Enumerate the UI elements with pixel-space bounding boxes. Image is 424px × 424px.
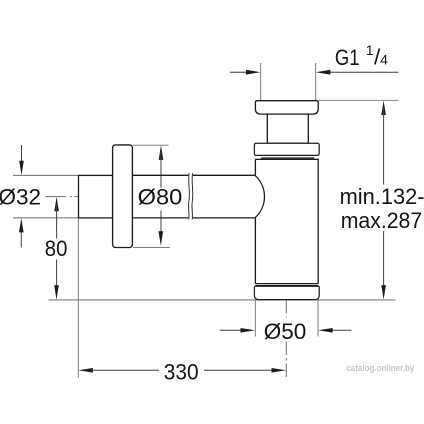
body chamfer line: [262, 158, 314, 160]
dim 80 upper arrow (up to centerline): [54, 197, 59, 212]
body bottom thick line: [255, 285, 318, 287]
break wavy line 1: [188, 173, 191, 219]
pipe segment break to bottle: top line: [193, 174, 255, 176]
pipe segment flange to break: top line: [132, 174, 188, 176]
bottle ring nut: [254, 143, 319, 155]
dim min132-max287 vertical line top with up arrow: [381, 101, 386, 116]
dim 330 line left segment with left arrow at wall face: [78, 368, 93, 373]
dim min132-max287 vertical line bottom with down arrow: [383, 231, 385, 293]
bottle top flange: [255, 101, 318, 114]
dimension G1 1/4 line right segment: [329, 71, 399, 73]
vertical extension line O50 left: [254, 300, 256, 337]
svg-text:4: 4: [380, 51, 388, 67]
dim O32 lower arrow (up): [20, 231, 22, 248]
svg-text:330: 330: [164, 359, 199, 384]
dim 330 line right segment with right arrow at bottle centerline: [204, 369, 273, 371]
extension line flange bottom right: [133, 246, 170, 248]
wall flange plate: [113, 145, 133, 248]
body bottom thin line: [255, 283, 318, 285]
pipe segment flange to break: bottom line: [132, 217, 188, 219]
dim O50 line left segment with right arrow: [220, 329, 242, 331]
bottle body: [255, 159, 318, 283]
arrowhead left-pointing at G dim right: [316, 70, 331, 75]
extension line bottle flange top to right dim: [319, 99, 399, 101]
thin extension line top of pipe (left): [13, 174, 79, 176]
pipe centerline (dash-dot, left): [46, 196, 79, 198]
vertical extension line O50 right: [317, 300, 319, 337]
bottle bottom cap: [254, 286, 319, 299]
svg-text:Ø50: Ø50: [264, 319, 307, 344]
thin extension line bottom of pipe (left): [13, 217, 79, 219]
svg-text:G1: G1: [335, 45, 360, 70]
svg-text:1: 1: [366, 42, 374, 58]
svg-text:Ø32: Ø32: [0, 185, 41, 210]
dim O50 line right segment with left arrow: [332, 329, 352, 331]
arrowhead right-pointing at G dim left: [246, 70, 261, 75]
dimension G1 1/4 line left segment: [230, 71, 247, 73]
vertical extension line G thread right: [315, 63, 317, 100]
pipe segment break to bottle: bottom line: [193, 217, 255, 219]
bottle centerline (dash-dot, bottom): [285, 300, 287, 317]
dim O80 vertical line lower part with down arrow: [160, 211, 162, 241]
vertical extension line for 330 dim (wall face): [77, 218, 79, 378]
extension line flange top right: [133, 144, 169, 146]
svg-text:min.132-: min.132-: [340, 184, 424, 209]
dim O32 upper arrow (down): [21, 145, 23, 162]
dim 80 lower arrow (down to baseline): [56, 260, 58, 294]
baseline (bottom reference line): [49, 299, 396, 301]
pipe end dome inside bottle: [255, 175, 265, 218]
bottle centerline lower part: [285, 342, 287, 379]
svg-text:Ø80: Ø80: [138, 184, 183, 209]
svg-text:80: 80: [45, 236, 68, 261]
break wavy line 2: [191, 173, 194, 219]
svg-text:catalog.onliner.by: catalog.onliner.by: [347, 363, 415, 373]
svg-text:max.287: max.287: [341, 208, 423, 233]
dim O80 vertical line upper part with up arrow: [159, 145, 164, 160]
bottle neck: [267, 114, 308, 143]
pipe stub box at wall: [79, 175, 113, 218]
vertical extension line G thread left: [260, 63, 262, 100]
